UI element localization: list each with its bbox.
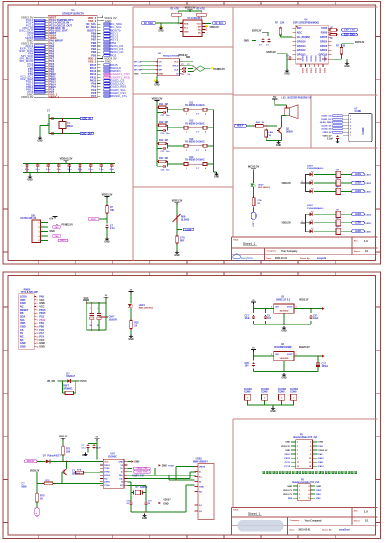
LED D1 [310,171,314,176]
svg-text:C?A: C?A [180,237,185,240]
svg-text:PC11: PC11 [285,462,291,464]
svg-text:S8050: S8050 [286,131,293,133]
svg-text:3: 3 [350,122,351,124]
svg-text:NC: NC [198,32,201,34]
svg-text:FCON4: FCON4 [290,388,299,391]
svg-text:CSD2: CSD2 [310,68,312,74]
svg-text:GND: GND [285,442,290,444]
svg-text:AMS1117-3.3: AMS1117-3.3 [276,298,291,301]
svg-text:CSD1: CSD1 [305,68,307,74]
svg-text:OSC_IN: OSC_IN [82,118,91,120]
svg-text:VDD3.3V: VDD3.3V [282,223,292,225]
svg-text:OLED_D0: OLED_D0 [321,129,332,131]
port IIC_SDA [142,22,156,25]
svg-text:12: 12 [309,462,311,464]
svg-text:VCC: VCC [104,461,109,463]
svg-text:VIN: VIN [275,307,279,309]
port OSC_OUT [80,132,94,135]
svg-text:7: 7 [299,498,300,500]
ground label on CN1 [50,231,55,233]
svg-text:PB11: PB11 [285,454,291,456]
svg-text:VDD1.7V: VDD1.7V [283,490,293,492]
touch channel capacitor C12 [157,125,170,135]
svg-text:TK-M30S-D-G9AC: TK-M30S-D-G9AC [185,122,205,125]
port IIC_SCL [213,22,226,25]
buzzer LS1 label [281,97,311,100]
svg-text:PW1: PW1 [318,446,324,448]
svg-text:U9?: U9? [111,454,116,456]
connector row ground bus [248,405,294,413]
svg-text:NC: NC [198,29,201,31]
svg-text:R14: R14 [159,157,164,160]
svg-text:LED GRN-G: LED GRN-G [258,187,270,189]
resistor R?0 below [36,483,45,503]
svg-text:DO: DO [159,65,162,67]
svg-text:3: 3 [271,306,272,308]
svg-text:VOUT: VOUT [287,307,293,309]
svg-text:PU0000R0BA-G: PU0000R0BA-G [307,167,323,170]
page 1 sheet frame [3,2,381,265]
svg-text:GND: GND [344,66,349,68]
connector CN1 KF2510-5P [21,215,49,242]
fuse/thermistor R? with slash [173,205,190,223]
power label VDD3.3V right of U5 [206,25,220,29]
svg-text:3: 3 [302,181,303,183]
power net MCU3.3V [248,165,260,171]
svg-text:ADC: ADC [297,32,302,35]
svg-text:ESP3.3V: ESP3.3V [252,30,262,32]
svg-text:3: 3 [302,221,303,223]
svg-text:OLED_D1: OLED_D1 [321,125,332,127]
touch channel capacitor C11 [157,107,170,117]
capacitor C6A with label [99,316,118,322]
svg-text:PVCC: PVCC [80,381,87,383]
capacitor C26 (reg2 in) [245,362,256,367]
SPI flash U6 W25Q32 [155,53,190,76]
capacitor C3 10uF (reg1 out) [309,315,319,320]
svg-text:GND: GND [199,486,204,488]
power net 5V (reg U2) [251,300,256,304]
EasyEDA logo page 1 [232,254,261,260]
resistor R?A 1K [74,469,103,475]
ground reg1 [281,326,286,332]
svg-text:RST: RST [297,27,302,30]
svg-text:VCC: VCC [174,61,179,63]
svg-text:D-: D- [121,472,123,474]
svg-text:CSD4: CSD4 [318,68,321,74]
svg-text:R?1: R?1 [66,449,71,451]
svg-text:VDD3.3V: VDD3.3V [152,96,163,100]
power net VDD3.3V (touch keys) [152,96,163,166]
svg-text:KF2510-WF-5P: KF2510-WF-5P [21,218,37,220]
connector CON8 [290,388,299,406]
svg-text:1K: 1K [40,499,43,501]
svg-text:VBAT_1: VBAT_1 [49,95,59,99]
svg-text:Drawn By:: Drawn By: [300,257,310,260]
svg-text:GPIO4: GPIO4 [320,40,328,43]
svg-text:7: 7 [36,316,37,318]
logo watermark page 2 [238,520,284,532]
touch channel capacitor C14 [157,161,170,171]
svg-text:NRST: NRST [91,219,97,221]
svg-text:GND: GND [20,346,26,349]
power label VDD3.3V cluster 2 [282,221,306,225]
svg-text:12K: 12K [280,22,285,24]
page 2 sheet frame [3,272,381,539]
svg-text:VDD3.3V: VDD3.3V [299,300,309,302]
power net 5V (cap bank) [103,295,108,303]
svg-text:ESP_TXD: ESP_TXD [344,30,355,32]
svg-text:VDDA3.3V: VDDA3.3V [60,157,73,161]
capacitor C? 10u (ESP) [259,38,265,46]
svg-text:Your Company!: Your Company! [305,520,322,522]
svg-text:Company:: Company: [267,251,277,253]
svg-text:ESP3.3V: ESP3.3V [355,42,365,44]
svg-text:8MHz: 8MHz [67,126,74,128]
touch channel resistor R11 1M [156,104,168,109]
svg-text:GND: GND [174,255,179,257]
svg-text:GND: GND [214,177,219,179]
resistor R? 1K (base pulldown) [265,128,273,138]
ground below U6 [154,76,160,87]
reg1 wires [253,304,325,325]
svg-text:MUSIC_CTL: MUSIC_CTL [111,94,128,98]
USB connector USB1 MINI [193,459,214,520]
ground for divider [174,245,179,257]
svg-text:VB_OB: VB_OB [47,381,55,383]
svg-text:GND: GND [316,486,321,488]
svg-text:CSD3: CSD3 [314,68,316,74]
power label VDD3.3V cluster 1 [282,181,306,185]
resistor R? 12K (EN pullup) [275,22,293,37]
resistor R? 12K (GPIO15 pulldown) [332,44,346,59]
svg-text:6: 6 [36,313,37,315]
touch channel resistor R13 1M [156,140,168,145]
ground for crystal [37,126,49,143]
resistor R25 1K (LED D1) [130,308,140,330]
svg-text:GND: GND [154,84,159,86]
EEPROM U5 AT24C08 [180,17,205,37]
power net VCC (cap bank) [83,297,89,303]
power net ESP3.3V left [252,30,268,36]
resistor R? 10K reset pullup [106,198,115,214]
port LED3 [352,190,372,194]
svg-text:CLK: CLK [174,69,179,71]
port ESP_TXD [342,29,358,32]
resistor R1 (LED) [314,169,351,177]
svg-text:GPIO5: GPIO5 [320,36,328,39]
svg-text:10u/16V: 10u/16V [109,319,118,321]
ground GPIO15 [344,59,349,68]
capacitor C?3 22p right [144,493,152,506]
svg-text:3: 3 [299,490,300,492]
svg-text:PA12: PA12 [318,465,324,468]
SD card connector U7 [343,108,372,141]
diode D? SS34 [62,374,77,383]
svg-text:10: 10 [36,326,38,328]
svg-text:GPIO0: GPIO0 [320,45,328,48]
svg-text:SS34A?: SS34A? [66,375,75,378]
crystal Y1 with load capacitors [47,111,80,135]
net label VB_OB [47,381,63,383]
svg-text:VDD3.3V: VDD3.3V [210,27,220,29]
touch pad TL-M30S TP2 [168,121,214,136]
resistor R?1 10K [62,440,71,461]
electrolytic capacitor C31 [97,303,101,330]
svg-text:LED6: LED6 [355,231,362,233]
diode D? PulseA4LT [37,455,103,464]
svg-text:VDD3.3V: VDD3.3V [281,446,291,448]
power net 5V (buzzer) [272,95,277,101]
svg-text:9: 9 [36,323,37,325]
svg-text:V3U3?: V3U3? [163,500,171,502]
svg-text:RED-LED0603: RED-LED0603 [139,308,154,310]
capacitor C? 104 at VCC [286,56,291,61]
svg-text:2: 2 [296,306,297,308]
svg-text:LED4: LED4 [355,213,362,216]
wire buzzer base [247,125,277,127]
svg-text:12: 12 [36,333,38,335]
svg-text:LED1: LED1 [355,174,362,176]
svg-text:6: 6 [308,494,309,496]
net flag CH340_RXD [127,470,150,473]
svg-text:OLED_RES: OLED_RES [320,122,332,124]
LED D6 [310,228,314,233]
svg-text:10uF: 10uF [245,318,251,320]
svg-text:2: 2 [296,354,297,356]
power net VDD3.3V (opto) [30,470,40,483]
svg-text:GND: GND [128,339,133,341]
svg-text:6: 6 [350,132,351,134]
connector CON6 [261,389,270,406]
electrolytic capacitor C? 100uF (reg2 out) [316,361,329,369]
svg-text:14: 14 [36,339,38,342]
svg-text:XO: XO [120,485,123,487]
svg-text:TXD0: TXD0 [321,27,328,30]
svg-text:KEEP3.3V: KEEP3.3V [299,347,310,349]
header P3 2x4 [283,479,322,500]
svg-text:TK-M30S-D-G9AC: TK-M30S-D-G9AC [185,159,205,162]
svg-text:R11: R11 [159,104,164,106]
svg-text:PA15: PA15 [316,489,322,492]
svg-text:2: 2 [350,119,351,121]
ground ESP left caps [244,40,256,42]
svg-text:C6A?: C6A? [109,316,116,319]
resistor R? 1K (buzzer base) [254,122,265,127]
svg-text:C?A: C?A [257,199,262,202]
wires USB left [146,467,195,513]
svg-text:PulseA4LT?: PulseA4LT? [48,455,62,458]
cap bank wiring page 2 [86,302,107,331]
touch pad TL-M30S TP3 [168,139,214,154]
svg-text:VIN: VIN [275,354,279,356]
svg-text:LED?: LED? [258,184,264,186]
svg-text:GND: GND [276,145,281,147]
svg-text:12M?2: 12M?2 [140,487,148,489]
power net ESP3.3V at VCC pin [267,52,293,59]
resistor R? (TXD series) [328,27,338,31]
svg-text:CH_PD(EN): CH_PD(EN) [297,36,310,39]
LED cluster label U9 [307,205,323,210]
svg-text:DCD#: DCD# [104,475,110,477]
labels GND VBUS right area [159,464,176,467]
svg-text:0.1u: 0.1u [46,169,51,171]
svg-text:DSR#: DSR# [104,482,110,484]
wires to SPI flash left pins [134,62,155,76]
svg-text:15: 15 [36,343,38,345]
regulator U3 XC6206-3.3 [271,344,310,361]
svg-text:CH340_RXD: CH340_RXD [136,471,148,474]
svg-text:DTR#: DTR# [104,472,110,474]
svg-text:RXD1: RXD1 [104,465,110,467]
power label +5V on CN1 [49,217,58,221]
resistor R6 (LED) [314,226,351,234]
resistor R?2 (base) [37,472,103,485]
svg-text:VDD3.3V: VDD3.3V [322,132,332,134]
svg-text:GPIO16: GPIO16 [297,40,306,43]
svg-text:SL0603: SL0603 [181,219,190,221]
svg-text:CON8: CON8 [244,392,251,394]
title block page 2 [232,508,378,536]
ground CH340 caps [82,449,88,458]
port LED4 [352,213,372,217]
svg-text:Sheet_1: Sheet_1 [248,512,260,516]
label UART_TX [132,475,145,478]
svg-text:SPI_WP: SPI_WP [134,70,142,72]
power net 5V (CH340) [88,437,100,460]
svg-text:100uF: 100uF [322,366,329,368]
svg-text:VDD3.3V: VDD3.3V [323,136,333,138]
svg-text:7: 7 [297,454,298,456]
buzzer/speaker symbol [275,101,298,119]
svg-text:3: 3 [271,354,272,356]
svg-text:SDIO2: SDIO2 [310,56,312,63]
svg-text:GND: GND [184,31,189,33]
svg-text:GND: GND [37,140,42,142]
svg-text:7: 7 [350,135,351,137]
capacitor C? 0.1u (ESP) [266,38,271,46]
ground for capacitor bank [27,173,32,182]
svg-text:TVS2?: TVS2? [168,466,175,468]
svg-text:1M: 1M [165,122,168,124]
LED cluster label U8 [307,165,323,170]
svg-text:10K: 10K [110,210,115,212]
connector CON7 [278,389,287,406]
net flag NRST on CN1 [58,239,68,242]
LED D4 [310,211,314,216]
svg-text:5: 5 [350,129,351,131]
svg-text:CON8: CON8 [278,392,285,394]
transistor Q1 S8050 (buzzer driver) [277,116,294,141]
svg-text:U14: U14 [189,156,194,159]
svg-text:0.1u: 0.1u [110,228,115,230]
svg-text:GND: GND [27,179,32,181]
svg-text:LED6: LED6 [366,231,372,233]
header P2 2x7 [281,434,328,469]
resistor R? (RXD series) [328,33,338,40]
svg-text:PU0000R0BA-G: PU0000R0BA-G [307,207,323,210]
resistor for power LED [252,187,262,207]
svg-text:1M: 1M [165,158,168,160]
LCD connector P1 TFT1.8 [19,289,46,349]
svg-text:CON8: CON8 [290,392,297,394]
stub connector below [35,502,40,516]
svg-text:C1?: C1? [245,315,250,317]
svg-text:VDD1.7V: VDD1.7V [283,494,293,496]
svg-text:PA11: PA11 [318,461,324,464]
wire IIC_SCL [202,21,211,27]
svg-text:UD-: UD- [119,478,123,480]
LED green power indicator [250,171,270,190]
svg-text:GND: GND [281,330,286,332]
power net VDD3.3V (reset) [102,192,113,198]
svg-text:SDA: SDA [184,22,189,25]
svg-text:10uF: 10uF [313,318,319,320]
ground for reset circuit [104,229,109,244]
svg-text:11: 11 [36,330,38,332]
svg-text:NC: NC [199,491,203,493]
resistor fuse R0F 5R0M (parallel) [63,381,76,395]
port ESP_RXD [342,33,358,36]
svg-text:SDIO3: SDIO3 [314,56,316,63]
svg-text:GND: GND [158,30,163,32]
transistor Q? S8050 (auto-dl) [62,461,81,476]
svg-text:2: 2 [308,486,309,488]
svg-text:VDD3.3V: VDD3.3V [282,183,292,185]
svg-text:XC6206P332MR: XC6206P332MR [274,347,292,349]
power net 5V (reg U3) [251,347,256,351]
svg-text:OLED_DC: OLED_DC [321,119,332,121]
svg-text:TK-M30S-D-G9AC: TK-M30S-D-G9AC [185,104,205,107]
svg-text:easyeda: easyeda [317,258,327,260]
SD card data ports [320,115,342,134]
LED D3 [310,188,314,193]
svg-text:GND: GND [285,450,290,452]
capacitor C? 0806 [21,483,37,489]
svg-text:VDD3.3V: VDD3.3V [318,450,328,452]
svg-text:Drawn By:: Drawn By: [322,529,332,532]
svg-text:LED5: LED5 [355,223,362,225]
svg-text:SPI_CS: SPI_CS [134,62,142,64]
net flag PA?? on CN1 [52,226,61,229]
svg-text:1M: 1M [165,140,168,142]
svg-text:GND: GND [118,461,123,463]
svg-text:R?A: R?A [77,469,82,472]
svg-text:R13: R13 [159,140,164,142]
svg-text:GND: GND [134,462,139,464]
svg-text:1K: 1K [257,203,260,205]
svg-text:C26: C26 [245,363,250,365]
svg-text:R2 4.7K: R2 4.7K [197,7,206,10]
svg-text:+5V: +5V [49,218,54,221]
svg-text:OSC_OUT: OSC_OUT [81,133,93,135]
svg-text:NRST: NRST [60,240,66,242]
svg-text:BUZZER-PASSIVE-5V: BUZZER-PASSIVE-5V [288,97,312,100]
svg-text:MINI-USB5S?: MINI-USB5S? [193,461,208,463]
svg-text:Rev:: Rev: [354,511,359,513]
svg-text:0806: 0806 [21,486,27,488]
svg-text:LED2: LED2 [366,183,372,185]
svg-text:D-: D- [199,471,202,473]
svg-text:VOUT: VOUT [287,354,293,356]
touch channel resistor R12 1M [156,122,168,127]
svg-text:VDD3.3V: VDD3.3V [30,470,40,472]
svg-text:STM32F103RCT6: STM32F103RCT6 [62,11,84,15]
capacitor SD VDD [323,135,340,143]
LED D1 RED [128,293,154,309]
svg-text:CH340C: CH340C [108,455,117,458]
port LED6 [352,230,372,234]
